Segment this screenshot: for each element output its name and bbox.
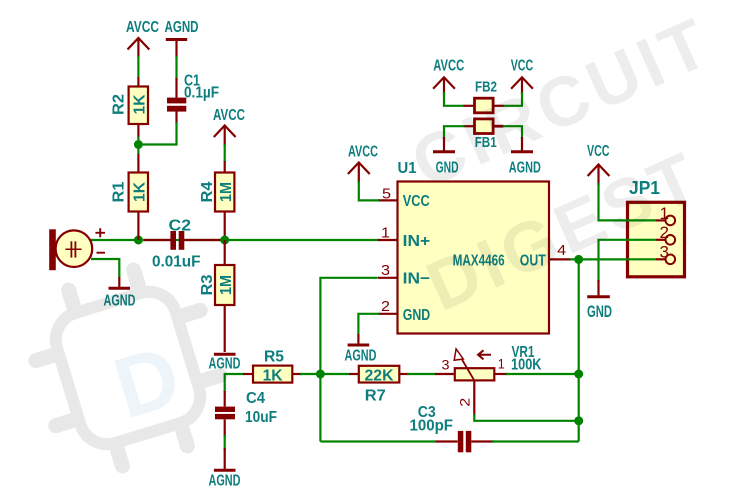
svg-text:3: 3 (660, 244, 670, 262)
svg-text:10uF: 10uF (245, 409, 277, 426)
svg-text:100pF: 100pF (410, 418, 454, 435)
svg-text:VCC: VCC (511, 58, 534, 75)
wire junction C down to C3 (319, 374, 321, 442)
watermark text CIRCUIT (400, 2, 723, 203)
junction B2 R2/R1 node (134, 140, 143, 149)
svg-text:R5: R5 (264, 349, 284, 366)
ground AGND below FB1 right (509, 137, 541, 177)
pin 1 of JP1 (656, 205, 675, 225)
ferrite bead FB1 (464, 119, 504, 151)
svg-text:2: 2 (457, 398, 473, 407)
watermark chip logo letter D (104, 327, 191, 437)
microphone MK1 (49, 228, 105, 270)
svg-text:R3: R3 (199, 274, 216, 295)
svg-text:5: 5 (382, 185, 391, 202)
resistor R7 22K (349, 366, 409, 405)
svg-text:AVCC: AVCC (126, 19, 159, 36)
power AVCC above FB2 (433, 58, 464, 95)
svg-text:VCC: VCC (587, 143, 610, 160)
wire IN- vertical (320, 278, 377, 374)
watermark chip logo (19, 255, 237, 481)
svg-text:1: 1 (498, 356, 505, 372)
wire AVCC to U1 VCC pin (359, 181, 379, 200)
wire C3 left to junction C rail (320, 440, 436, 442)
ground AGND mic (104, 277, 136, 310)
pin 4 OUT of U1 (549, 242, 570, 259)
svg-text:1K: 1K (132, 94, 149, 114)
wire VCC to FB2 right (503, 92, 522, 106)
svg-text:GND: GND (403, 307, 431, 324)
wire VR1 pin2 to right rail (474, 414, 578, 421)
wire U1 GND pin down (358, 314, 379, 335)
resistor R2 1K (111, 77, 149, 145)
junction D OUT node (574, 255, 583, 264)
potentiometer VR1 100K (435, 344, 542, 416)
ground AGND below C4 (209, 448, 241, 490)
wire AVCC to R2 (137, 56, 139, 77)
svg-text:3: 3 (381, 262, 390, 279)
svg-text:AVCC: AVCC (433, 58, 464, 75)
wire R5 left / C4 top corner (225, 374, 243, 393)
svg-text:AGND: AGND (209, 473, 241, 490)
power VCC above JP1 (587, 143, 610, 185)
pin 2 GND of U1 (378, 298, 398, 315)
wire VCC to JP1 pin1 (599, 183, 657, 220)
wire C4 to AGND (224, 435, 226, 450)
svg-text:AVCC: AVCC (348, 144, 378, 161)
svg-text:0.01uF: 0.01uF (152, 254, 201, 271)
wire R7 to VR1 pin3 (407, 373, 435, 375)
wire C3 right to right rail (492, 440, 579, 442)
ground AGND below R3 (209, 354, 241, 372)
watermark text DIGEST (415, 136, 712, 325)
power AVCC top-left (126, 19, 159, 58)
wire VR1 pin1 to right rail (506, 373, 579, 375)
svg-text:GND: GND (587, 303, 612, 321)
svg-text:R7: R7 (365, 388, 386, 405)
wire GND to JP1 pin2 (599, 240, 657, 282)
junction B C2/R4/R3 node (220, 236, 229, 245)
capacitor C2 0.01uF (144, 218, 221, 271)
svg-text:C4: C4 (246, 390, 265, 407)
wire mic plus to junction A (90, 239, 138, 241)
svg-text:VCC: VCC (403, 193, 430, 210)
svg-text:1M: 1M (218, 182, 235, 202)
ground AGND top (above C1) (165, 19, 199, 58)
svg-text:R2: R2 (111, 94, 128, 115)
svg-text:2: 2 (381, 298, 390, 315)
svg-text:0.1µF: 0.1µF (184, 85, 219, 102)
wire junction C to R7 (320, 373, 349, 375)
svg-text:AVCC: AVCC (213, 107, 245, 124)
resistor R5 1K (243, 349, 302, 385)
svg-text:1M: 1M (218, 275, 235, 295)
pin 2 of JP1 (656, 224, 675, 244)
wire OUT down right rail (578, 259, 580, 441)
svg-text:R4: R4 (199, 181, 216, 202)
svg-text:100K: 100K (511, 356, 542, 373)
wire OUT to JP1 pin3 (570, 258, 656, 260)
svg-text:IN+: IN+ (403, 233, 431, 250)
op-amp U1 MAX4466 (398, 160, 550, 334)
junction F VR1 pin2 node (574, 416, 583, 425)
pin 3 of JP1 (656, 244, 675, 264)
svg-text:1K: 1K (132, 182, 149, 202)
ground GND below JP1 wires (587, 280, 612, 321)
pin 5 VCC of U1 (378, 185, 398, 202)
resistor R1 1K (111, 145, 149, 241)
svg-text:22K: 22K (365, 367, 394, 384)
wire FB1 right to AGND (503, 126, 522, 139)
power AVCC above U1 (348, 144, 378, 184)
capacitor C3 100pF (410, 404, 495, 452)
svg-text:1K: 1K (263, 368, 283, 385)
svg-text:C2: C2 (169, 218, 192, 235)
ground GND below FB1 left (433, 137, 459, 177)
connector JP1 (626, 178, 685, 277)
wire mic minus (91, 259, 119, 278)
wire C1 down to junction B2 (138, 122, 176, 145)
wire AGND to C1 (175, 56, 177, 80)
svg-text:3: 3 (442, 357, 450, 373)
junction C IN- node (316, 370, 325, 379)
capacitor C4 10uF (215, 390, 277, 437)
svg-text:R1: R1 (111, 181, 128, 202)
resistor R4 1M (199, 161, 235, 240)
resistor R3 1M (199, 240, 235, 352)
wire IN+ net horizontal (138, 239, 379, 241)
svg-text:AGND: AGND (165, 19, 199, 36)
ground AGND below U1 GND pin (345, 334, 377, 365)
ferrite bead FB2 (464, 78, 504, 112)
pin 3 IN- of U1 (378, 262, 398, 279)
junction A mic node (134, 236, 143, 245)
wire R5 to junction C (300, 373, 320, 375)
power VCC above FB2 (511, 58, 534, 95)
wire FB1 left to GND (444, 126, 465, 139)
capacitor C1 0.1uF (167, 73, 219, 125)
pin 1 IN+ of U1 (378, 224, 398, 241)
svg-text:AGND: AGND (345, 348, 377, 365)
wire AVCC to FB2 left (444, 92, 465, 106)
power AVCC above R4 (213, 107, 245, 146)
svg-text:1: 1 (381, 224, 390, 241)
junction E VR1 pin1 node (574, 370, 583, 379)
wire AVCC to R4 (224, 144, 226, 162)
